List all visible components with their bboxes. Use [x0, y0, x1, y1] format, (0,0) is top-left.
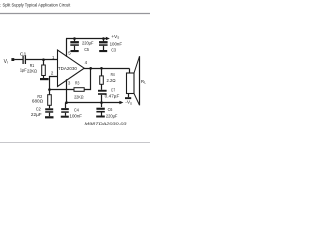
svg-text:22µF: 22µF: [31, 112, 42, 117]
frame bottom border: [0, 142, 150, 144]
wire input to C1: [14, 59, 22, 61]
svg-text:100nF: 100nF: [70, 114, 83, 119]
wire pin 2 stub: [50, 77, 58, 95]
resistor R4 2.2ohm: [100, 67, 116, 90]
svg-text:22KΩ: 22KΩ: [74, 95, 84, 100]
svg-text:100nF: 100nF: [110, 42, 123, 47]
ground under R1: [40, 78, 49, 80]
svg-text:M98TDA2030-03: M98TDA2030-03: [85, 121, 128, 126]
ground under C2: [45, 116, 54, 118]
ground under C4: [61, 116, 69, 118]
svg-text:RL: RL: [141, 79, 146, 84]
capacitor C4 100nF: [61, 103, 82, 119]
wire pin 4 output: [84, 68, 130, 70]
ground under C6: [96, 116, 105, 118]
svg-text:C1: C1: [20, 52, 27, 57]
node +Vs arrowhead: [106, 37, 110, 40]
node feedback junction dot: [48, 88, 51, 91]
ground under speaker: [125, 97, 131, 99]
node pin3 rail junction dot: [65, 101, 68, 104]
wire pin 3 to -Vs rail: [66, 79, 68, 102]
svg-text:R1: R1: [30, 63, 35, 68]
ground under C3: [99, 50, 107, 52]
capacitor C2 22uF: [31, 107, 53, 117]
capacitor C7 0.47uF: [98, 87, 120, 102]
wire +Vs rail: [66, 38, 106, 40]
node -Vs arrowhead: [119, 101, 123, 104]
svg-text:22KΩ: 22KΩ: [27, 68, 37, 73]
wire -Vs rail: [66, 102, 120, 104]
speaker RL: [127, 56, 147, 105]
svg-text:Vi: Vi: [4, 59, 8, 65]
wire C1 to pin 1: [26, 59, 58, 61]
svg-text:C6: C6: [108, 107, 113, 112]
svg-text:R4: R4: [111, 72, 115, 77]
node Vi input terminal: [4, 58, 15, 65]
wire pin 5 to +Vs rail: [66, 39, 68, 57]
svg-text:C7: C7: [111, 87, 115, 92]
frame top border: [0, 13, 150, 15]
svg-text:R3: R3: [75, 80, 80, 85]
resistor R1 22K: [27, 60, 45, 79]
svg-text:220µF: 220µF: [82, 41, 94, 46]
wire R3 to output riser: [84, 69, 90, 90]
ground under C5: [71, 50, 79, 52]
svg-text:1µF: 1µF: [20, 67, 27, 72]
svg-text:680Ω: 680Ω: [32, 99, 44, 104]
svg-text:+Vs: +Vs: [111, 34, 119, 40]
capacitor C6 220uF: [96, 103, 117, 119]
capacitor C5 220uF: [70, 37, 93, 52]
svg-text:220µF: 220µF: [106, 114, 118, 119]
svg-text:: Split Supply Typical Applica: : Split Supply Typical Application Circu…: [0, 3, 71, 9]
node junction dot input: [42, 58, 45, 61]
wire feedback to R3: [50, 89, 75, 91]
svg-text:C4: C4: [74, 107, 79, 112]
svg-text:C5: C5: [84, 47, 89, 52]
svg-text:TDA2030: TDA2030: [58, 66, 77, 71]
svg-text:0.47µF: 0.47µF: [105, 93, 120, 98]
capacitor C3 100nF: [99, 37, 122, 52]
svg-text:2.2Ω: 2.2Ω: [107, 78, 117, 83]
resistor R2 680ohm: [32, 94, 51, 108]
svg-text:-Vs: -Vs: [125, 100, 132, 106]
node C7 rail junction dot: [100, 101, 103, 104]
node output feedback dot: [89, 67, 92, 70]
op-amp U1 TDA2030 triangle: [58, 50, 85, 86]
svg-text:C3: C3: [111, 47, 116, 52]
resistor R3 22K feedback: [74, 80, 84, 99]
capacitor C1 1uF: [20, 52, 27, 73]
